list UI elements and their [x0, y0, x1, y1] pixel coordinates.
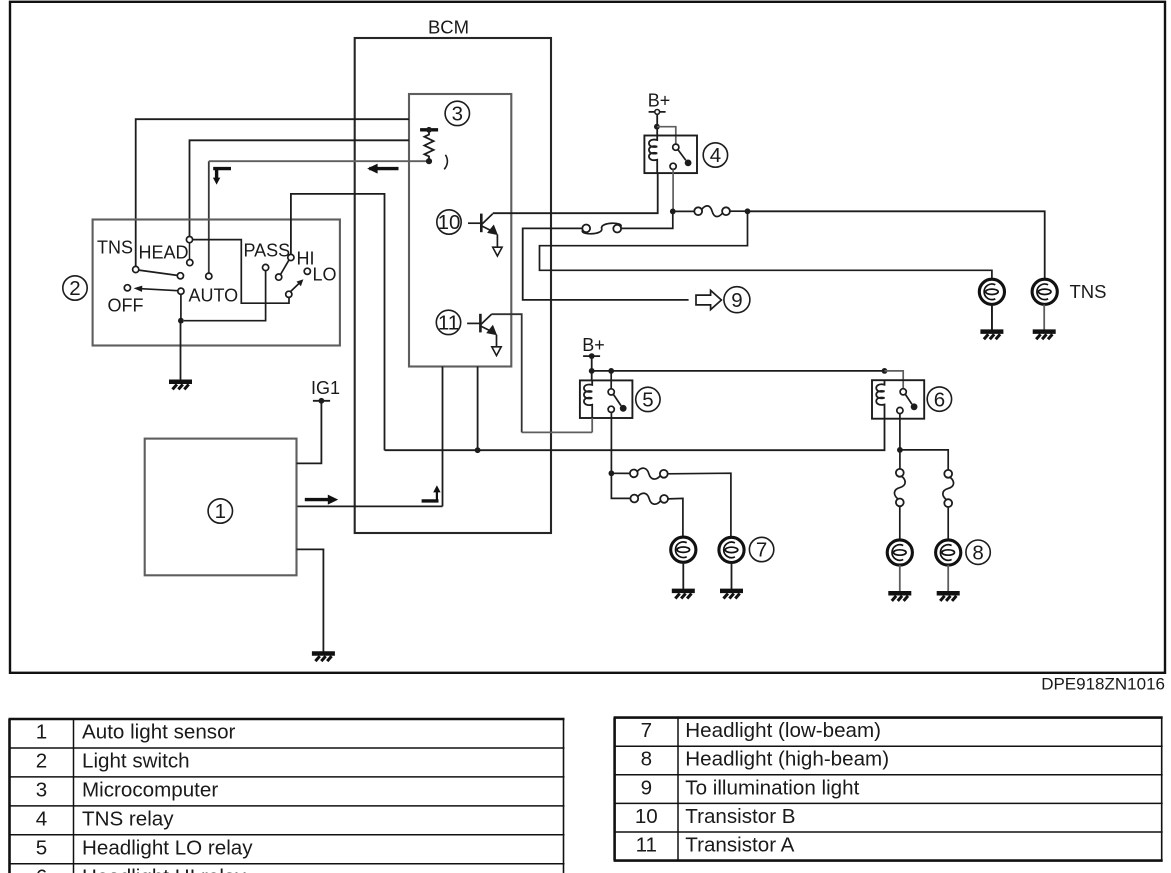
svg-text:HEAD: HEAD	[139, 243, 189, 263]
svg-text:OFF: OFF	[108, 296, 144, 316]
svg-text:3: 3	[452, 103, 463, 126]
svg-text:8: 8	[972, 541, 983, 564]
svg-text:BCM: BCM	[428, 17, 469, 38]
svg-text:8: 8	[641, 748, 652, 771]
svg-text:Light switch: Light switch	[82, 750, 190, 773]
svg-text:Transistor A: Transistor A	[685, 834, 794, 857]
svg-text:Headlight LO relay: Headlight LO relay	[82, 836, 253, 859]
svg-text:AUTO: AUTO	[189, 286, 239, 306]
svg-text:TNS: TNS	[1070, 281, 1107, 302]
svg-text:To illumination light: To illumination light	[685, 776, 859, 799]
svg-text:Transistor B: Transistor B	[685, 805, 795, 828]
svg-text:3: 3	[36, 779, 47, 802]
svg-text:5: 5	[642, 389, 653, 412]
svg-text:IG1: IG1	[311, 378, 340, 398]
svg-text:9: 9	[731, 289, 742, 312]
svg-text:TNS: TNS	[97, 238, 133, 258]
svg-text:6: 6	[36, 866, 47, 873]
svg-text:Headlight (low-beam): Headlight (low-beam)	[685, 719, 881, 742]
svg-text:7: 7	[641, 719, 652, 742]
svg-text:2: 2	[36, 750, 47, 773]
svg-text:1: 1	[215, 500, 226, 523]
svg-text:Headlight HI relay: Headlight HI relay	[82, 866, 246, 873]
svg-text:PASS: PASS	[244, 241, 291, 261]
svg-text:2: 2	[69, 277, 80, 300]
svg-text:4: 4	[710, 144, 721, 167]
svg-text:6: 6	[934, 388, 945, 411]
svg-text:LO: LO	[313, 265, 337, 285]
svg-text:1: 1	[36, 721, 47, 744]
svg-text:DPE918ZN1016: DPE918ZN1016	[1041, 675, 1165, 694]
svg-text:Headlight (high-beam): Headlight (high-beam)	[685, 748, 889, 771]
svg-text:7: 7	[756, 539, 767, 562]
svg-text:B+: B+	[582, 335, 605, 355]
svg-text:10: 10	[438, 211, 461, 234]
svg-text:10: 10	[635, 805, 658, 828]
svg-text:TNS relay: TNS relay	[82, 808, 174, 831]
svg-text:9: 9	[641, 776, 652, 799]
svg-text:5: 5	[36, 836, 47, 859]
svg-text:Auto light sensor: Auto light sensor	[82, 721, 236, 744]
svg-text:Microcomputer: Microcomputer	[82, 779, 218, 802]
svg-text:4: 4	[36, 808, 47, 831]
svg-text:B+: B+	[648, 91, 671, 111]
svg-text:11: 11	[636, 834, 657, 857]
svg-text:11: 11	[438, 312, 459, 335]
